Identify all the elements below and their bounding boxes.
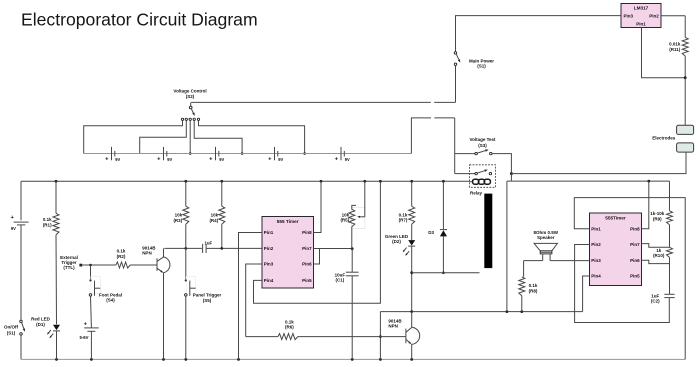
resistor R11 0.01k xyxy=(669,37,688,77)
wire U1 Pin4 reset to bus xyxy=(254,181,381,303)
wire D3 down xyxy=(442,236,445,274)
wire U1 Pin6 tie to Pin7 xyxy=(314,249,320,265)
svg-text:+: + xyxy=(335,157,339,163)
svg-text:Pin1: Pin1 xyxy=(636,22,646,27)
wire S2 tap1 xyxy=(140,121,187,154)
wire R6 to Q2 base xyxy=(298,336,406,338)
svg-text:(C1): (C1) xyxy=(336,278,345,283)
resistor R9 1k-10k xyxy=(650,211,672,225)
svg-text:D3: D3 xyxy=(428,230,434,235)
wire S4 to battery B7 xyxy=(90,296,93,328)
battery B7 5-6V xyxy=(79,322,98,340)
switch S1 Main Power xyxy=(454,52,494,69)
svg-text:(R5): (R5) xyxy=(340,218,349,223)
wire pulse line xyxy=(380,310,582,313)
wire R3 to trigger node xyxy=(185,224,187,248)
svg-text:NPN: NPN xyxy=(388,323,398,328)
battery B3 9V xyxy=(209,147,224,163)
svg-text:+: + xyxy=(268,157,272,163)
wire Q2 emitter to ground xyxy=(411,344,413,359)
svg-text:0.1k: 0.1k xyxy=(117,249,126,254)
svg-text:(R11): (R11) xyxy=(669,47,681,52)
wire On/Off to ground bus xyxy=(20,335,22,359)
LED D2 Green xyxy=(385,234,415,256)
wire panel trigger branch xyxy=(185,248,187,279)
wire U2 Pin7 xyxy=(642,244,670,248)
bus right segment xyxy=(507,180,670,183)
svg-text:Pin6: Pin6 xyxy=(302,262,312,267)
svg-text:Relay: Relay xyxy=(470,190,483,195)
LED D1 Red xyxy=(31,317,60,339)
relay thick output bar xyxy=(484,194,492,269)
svg-text:1k-10k: 1k-10k xyxy=(650,211,665,216)
svg-text:+: + xyxy=(105,157,109,163)
svg-text:(R9): (R9) xyxy=(653,216,662,221)
resistor R6 0.1k xyxy=(278,319,298,339)
wire U2 Pin2 to C2 bottom xyxy=(575,245,670,323)
svg-text:Pin1: Pin1 xyxy=(264,230,274,235)
wire B7 to ground xyxy=(90,331,92,359)
relay contact switch xyxy=(455,170,492,175)
wire bus to diode D3 xyxy=(442,181,444,229)
svg-text:Foot Pedal: Foot Pedal xyxy=(99,292,122,297)
svg-text:(R3): (R3) xyxy=(173,218,182,223)
wire R9 to Pin7 node xyxy=(669,225,671,248)
svg-text:Electrodes: Electrodes xyxy=(652,135,676,140)
svg-text:0.1k: 0.1k xyxy=(43,217,52,222)
wire battery chain row xyxy=(84,153,412,155)
potentiometer R5 10k xyxy=(340,181,364,228)
svg-text:Pin7: Pin7 xyxy=(302,246,312,251)
top supply bus xyxy=(21,180,470,183)
svg-text:(S1): (S1) xyxy=(7,330,16,335)
svg-text:Pin2: Pin2 xyxy=(591,242,601,247)
wire U2 Pin6 xyxy=(642,260,670,263)
capacitor C1 10uF xyxy=(335,272,359,282)
battery B1 9V xyxy=(105,147,120,163)
battery B2 9V xyxy=(157,147,172,163)
wire R8 top xyxy=(523,261,525,277)
svg-text:0.01k: 0.01k xyxy=(669,41,681,46)
resistor R8 0.1k xyxy=(519,277,538,296)
battery B4 9V xyxy=(268,147,283,163)
wire bus to R3 xyxy=(185,181,187,206)
svg-text:9V: 9V xyxy=(115,157,120,162)
wire S2 tap0 to battery chain left xyxy=(84,121,183,154)
svg-text:Pin3: Pin3 xyxy=(624,14,634,19)
wire foot pedal branch xyxy=(90,265,92,279)
diode D3 xyxy=(428,230,447,237)
wire left rail to battery xyxy=(20,181,22,220)
wire bus segment down to pulse line xyxy=(506,181,508,312)
svg-text:NPN: NPN xyxy=(142,250,152,255)
wire R8 to pulse line xyxy=(521,296,523,312)
svg-text:LM317: LM317 xyxy=(634,6,649,11)
svg-text:1uF: 1uF xyxy=(651,293,659,298)
svg-text:+: + xyxy=(209,157,213,163)
svg-text:0.1k: 0.1k xyxy=(285,319,294,324)
wire U1 Pin7 line xyxy=(314,247,354,250)
wire U2 Pin1 to ground loop xyxy=(574,198,685,360)
timer U2 555 body xyxy=(590,213,642,286)
wire LM317 Pin2 to R11 xyxy=(661,16,685,38)
wire battery chain to S3 node (hop gap) xyxy=(411,118,454,174)
wire Q1 emitter to ground xyxy=(163,273,165,360)
wire U1 Pin1 to ground xyxy=(239,233,263,360)
title text xyxy=(21,10,258,30)
svg-text:Pin1: Pin1 xyxy=(591,226,601,231)
wire R1 to LED D1 xyxy=(55,235,58,325)
battery B5 9V xyxy=(335,147,350,163)
svg-text:9V: 9V xyxy=(167,157,172,162)
wire battery to On/Off switch xyxy=(20,225,22,320)
switch S1b On/Off xyxy=(4,320,25,335)
svg-text:Pin8: Pin8 xyxy=(630,226,640,231)
svg-text:On/Off: On/Off xyxy=(4,325,18,330)
wire S2 tap4 xyxy=(199,121,306,155)
wire LM317 Pin3 to S1 xyxy=(456,16,622,52)
svg-text:1k: 1k xyxy=(656,248,662,253)
resistor R3 10k xyxy=(173,206,188,224)
wire speaker right to U2 Pin3 xyxy=(550,260,589,262)
svg-text:9V: 9V xyxy=(345,157,350,162)
wire output node to top electrode xyxy=(684,78,686,126)
wire LM317 Pin1 to output node xyxy=(642,28,687,80)
switch S5 Panel Trigger xyxy=(185,276,222,303)
wire LED D1 to ground xyxy=(56,331,58,360)
wire bus to R9 xyxy=(669,181,671,211)
svg-text:(S1): (S1) xyxy=(477,64,486,69)
svg-text:+: + xyxy=(157,157,161,163)
svg-text:+: + xyxy=(11,215,15,221)
wire S2 tap2 xyxy=(189,121,192,155)
svg-text:(D1): (D1) xyxy=(36,322,45,327)
wire bus to R4 xyxy=(221,181,223,206)
wire Pin3 output to R6 xyxy=(246,336,278,338)
wire S1 bottom to node xyxy=(455,66,457,103)
svg-text:Speaker: Speaker xyxy=(537,235,555,240)
svg-text:(S5): (S5) xyxy=(203,298,212,303)
capacitor C2 1uF xyxy=(651,293,675,303)
transistor Q1 9014B NPN xyxy=(142,246,170,273)
svg-text:9V: 9V xyxy=(278,157,283,162)
svg-text:(D2): (D2) xyxy=(392,239,401,244)
wire R2 to Q1 base xyxy=(130,264,157,266)
wire U2 Pin4 to pulse line xyxy=(583,276,590,312)
wire Pin7 node to C1 xyxy=(351,249,353,272)
resistor R4 10k xyxy=(209,206,224,224)
wire under-bar link xyxy=(412,272,480,274)
svg-text:555 Timer: 555 Timer xyxy=(277,219,299,224)
resistor R10 1k xyxy=(653,247,672,258)
relay coil xyxy=(470,179,491,184)
wire C1 to ground xyxy=(351,276,353,360)
svg-text:5-6V: 5-6V xyxy=(79,335,88,340)
wire S2 tap3 xyxy=(194,121,243,155)
svg-text:(R4): (R4) xyxy=(209,218,218,223)
svg-text:Pin8: Pin8 xyxy=(302,230,312,235)
svg-text:Pin6: Pin6 xyxy=(630,258,640,263)
relay label xyxy=(470,190,483,195)
resistor R2 0.1k xyxy=(116,249,130,268)
electrode plate top xyxy=(677,125,694,134)
switch S2 Voltage Control rotary xyxy=(173,88,206,120)
wire cap to 555 no1 Pin2 xyxy=(206,247,262,249)
wire U1 Pin3 output xyxy=(246,264,262,337)
capacitor 1uF coupling xyxy=(203,240,213,253)
svg-text:Main Power: Main Power xyxy=(469,58,494,63)
wire collector line to cap xyxy=(164,247,202,250)
wire relay line to electrodes xyxy=(511,153,686,174)
svg-text:(S4): (S4) xyxy=(106,298,115,303)
svg-text:Electroporator Circuit Diagram: Electroporator Circuit Diagram xyxy=(21,10,258,30)
wire R4 to Pin2 node xyxy=(220,224,223,250)
wire trigger line xyxy=(82,264,116,267)
svg-text:Voltage Control: Voltage Control xyxy=(173,88,206,93)
wire U2 Pin8 to bus xyxy=(642,181,649,229)
svg-text:Voltage Test: Voltage Test xyxy=(469,137,496,142)
svg-text:(R8): (R8) xyxy=(529,288,538,293)
transistor Q2 9014B NPN xyxy=(388,318,419,344)
svg-text:Pin5: Pin5 xyxy=(302,278,312,283)
wire LED D2 down xyxy=(410,246,413,312)
battery B6 9V xyxy=(11,215,29,231)
wire R7 to LED D2 xyxy=(411,224,413,240)
wire bus to R1 xyxy=(55,181,57,213)
svg-text:Pin5: Pin5 xyxy=(630,274,640,279)
svg-text:(C2): (C2) xyxy=(651,299,660,304)
svg-text:Pin4: Pin4 xyxy=(264,278,274,283)
electrodes label xyxy=(652,135,676,140)
svg-text:Pin2: Pin2 xyxy=(649,14,659,19)
svg-text:(R7): (R7) xyxy=(399,218,408,223)
svg-text:(R1): (R1) xyxy=(43,222,52,227)
svg-text:Panel Trigger: Panel Trigger xyxy=(193,293,222,298)
svg-text:(R10): (R10) xyxy=(653,253,665,258)
wire Pin6 node to C2 xyxy=(669,257,671,294)
wire S5 to ground xyxy=(185,296,187,359)
svg-text:+: + xyxy=(84,322,87,328)
relay K1 dashed enclosure xyxy=(470,165,496,188)
svg-text:Pin3: Pin3 xyxy=(591,258,601,263)
speaker LS1 8Ohm xyxy=(533,230,558,261)
svg-text:9V: 9V xyxy=(219,157,224,162)
wire Q1 collector up xyxy=(163,248,165,257)
timer U1 555 body xyxy=(262,217,314,289)
svg-text:9V: 9V xyxy=(11,226,16,231)
voltage regulator U3 LM317 body xyxy=(621,4,661,28)
wire S1 to S2 common (hop gap) xyxy=(191,102,456,106)
switch S3 Voltage Test xyxy=(455,137,512,172)
wire pulse line to ground xyxy=(379,312,382,360)
wire U1 Pin8 to bus xyxy=(314,181,322,232)
svg-text:Pin2: Pin2 xyxy=(264,246,274,251)
svg-text:(R2): (R2) xyxy=(117,254,126,259)
wire R5 to Pin7 node xyxy=(351,227,353,249)
ground bottom bus xyxy=(21,358,685,361)
switch S4 Foot Pedal xyxy=(89,276,122,302)
electrode plate bottom xyxy=(677,143,694,152)
external trigger terminal xyxy=(60,255,82,270)
resistor R7 0.1k xyxy=(399,206,415,224)
resistor R1 0.1k xyxy=(43,213,59,234)
node relay-electrode junction xyxy=(510,172,513,181)
svg-text:(S3): (S3) xyxy=(478,143,487,148)
wire Q2 collector xyxy=(411,312,413,328)
wire bus to R7 xyxy=(411,181,413,206)
svg-text:Pin3: Pin3 xyxy=(264,262,274,267)
svg-text:555Timer: 555Timer xyxy=(605,216,626,221)
svg-text:0.1k: 0.1k xyxy=(529,283,538,288)
svg-text:(S2): (S2) xyxy=(186,94,195,99)
wire speaker left xyxy=(524,260,543,262)
svg-text:Pin4: Pin4 xyxy=(591,274,601,279)
svg-text:(TTL): (TTL) xyxy=(63,265,75,270)
svg-text:(R6): (R6) xyxy=(285,325,294,330)
svg-text:Pin7: Pin7 xyxy=(630,242,640,247)
